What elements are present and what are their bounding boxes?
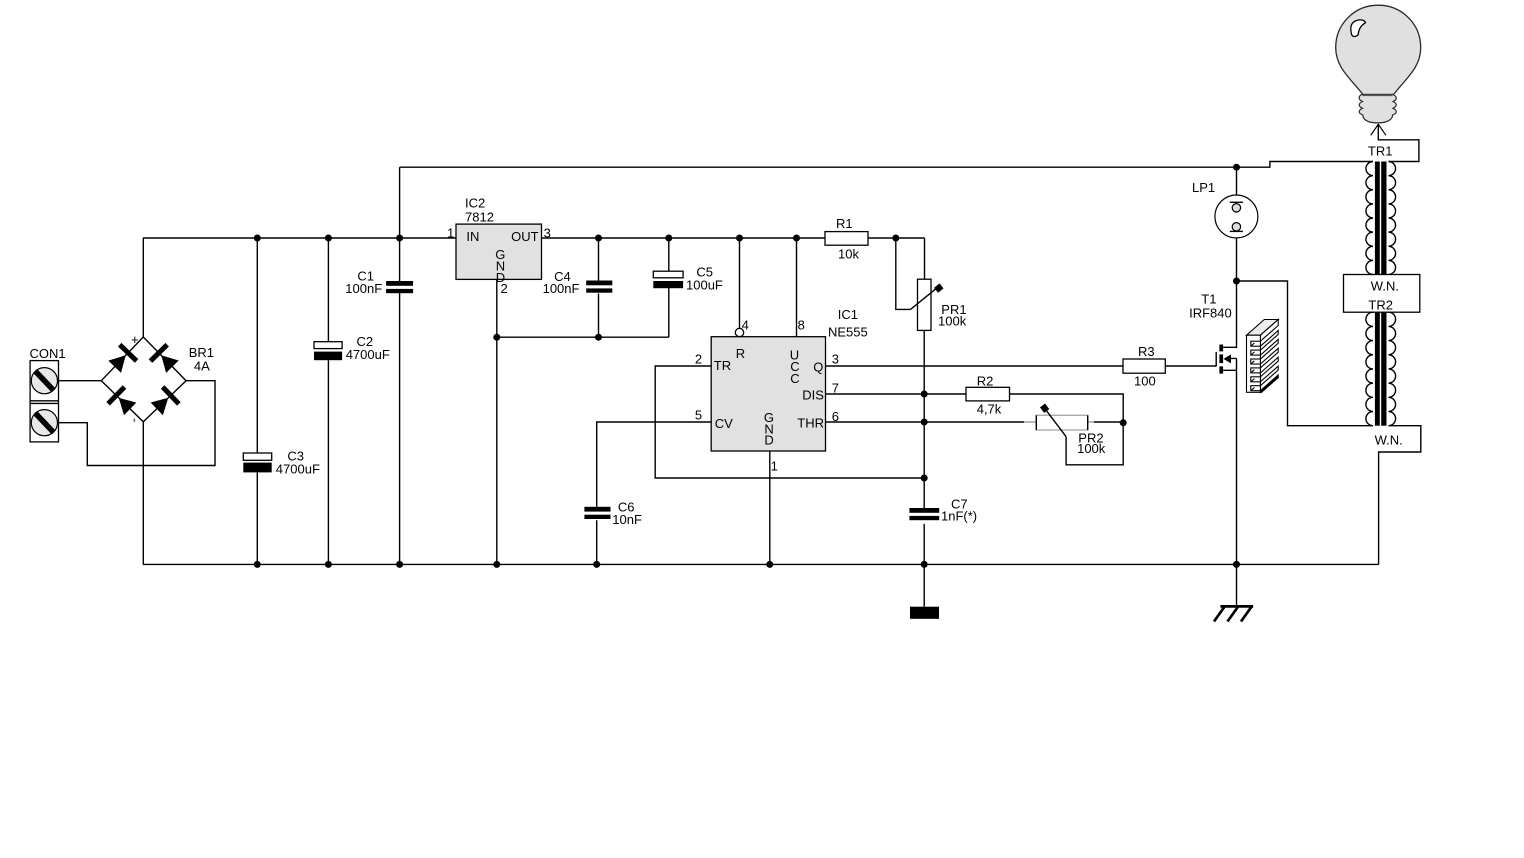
wire +V rail (bridge output, y=238) bbox=[143, 237, 925, 239]
svg-text:NE555: NE555 bbox=[828, 325, 868, 340]
wire drain node to TR2 winding bottom bbox=[1237, 281, 1374, 426]
wire NE555 pin 1 GND to bottom rail bbox=[769, 451, 771, 564]
svg-text:100k: 100k bbox=[1077, 441, 1106, 456]
svg-text:LP1: LP1 bbox=[1192, 180, 1215, 195]
capacitor C2 bbox=[314, 342, 342, 361]
connector CON1 bbox=[30, 361, 58, 442]
wire NE555 pin 5 CV to C6 bbox=[597, 422, 712, 507]
wire TR2 bottom W.N. return to bottom rail bbox=[1379, 426, 1421, 565]
svg-text:2: 2 bbox=[695, 351, 702, 366]
wire CON1 bottom terminal loop to bridge AC right bbox=[59, 381, 216, 466]
BR1 minus mark bbox=[133, 419, 135, 422]
regulator IC2 7812 bbox=[456, 224, 542, 285]
timer IC1 NE555 bbox=[711, 337, 825, 451]
wire C2 branch vertical bbox=[327, 238, 329, 564]
transformer TR1 core bars bbox=[1375, 162, 1387, 275]
wire IC2 gnd / C4 / C5 bottom bus (y=337.2) bbox=[497, 336, 669, 338]
svg-text:6: 6 bbox=[832, 409, 839, 424]
trimmer PR2 bbox=[1024, 403, 1094, 436]
wire CON1 top terminal to bridge AC left bbox=[59, 380, 102, 382]
svg-text:4: 4 bbox=[742, 318, 749, 333]
wire top rail from C1 node to transformer TR1 bbox=[400, 162, 1373, 168]
ground (chassis ground at T1 source) bbox=[1214, 606, 1253, 621]
svg-text:2: 2 bbox=[501, 281, 508, 296]
svg-text:OUT: OUT bbox=[511, 229, 538, 244]
svg-text:TR2: TR2 bbox=[1368, 297, 1393, 312]
wire C4 branch vertical bbox=[598, 238, 600, 337]
svg-text:R1: R1 bbox=[836, 216, 853, 231]
IC1 pin 4 inversion bubble bbox=[735, 328, 743, 336]
svg-text:4A: 4A bbox=[194, 358, 210, 373]
heatsink on T1 bbox=[1247, 320, 1279, 393]
resistor R1 bbox=[825, 232, 868, 246]
svg-text:W.N.: W.N. bbox=[1371, 278, 1399, 293]
svg-text:100nF: 100nF bbox=[543, 281, 580, 296]
diode BR1 top-left bbox=[106, 343, 138, 375]
wire PR2 wiper loop to node bbox=[1066, 423, 1123, 465]
wire C5 branch vertical bbox=[668, 238, 670, 337]
wire IC2 GND pin 2 vertical to bottom rail bbox=[496, 279, 498, 564]
svg-text:7812: 7812 bbox=[465, 209, 494, 224]
svg-text:R2: R2 bbox=[977, 373, 994, 388]
svg-text:4700uF: 4700uF bbox=[346, 347, 390, 362]
W.N. junction box between TR1 and TR2 bbox=[1344, 275, 1420, 313]
svg-text:7: 7 bbox=[832, 381, 839, 396]
svg-text:10k: 10k bbox=[838, 246, 859, 261]
svg-text:4700uF: 4700uF bbox=[276, 462, 320, 477]
wire R3 to MOSFET gate bbox=[1165, 365, 1216, 367]
bridge rectifier BR1 diamond outline bbox=[101, 337, 186, 422]
trimmer PR1 bbox=[911, 279, 944, 330]
svg-text:IRF840: IRF840 bbox=[1189, 305, 1232, 320]
svg-text:Q: Q bbox=[813, 359, 823, 374]
svg-text:R: R bbox=[736, 346, 745, 361]
svg-text:100: 100 bbox=[1134, 373, 1156, 388]
wire NE555 pin 3 Q output to R3 bbox=[826, 365, 1124, 367]
wire PR1 bottom to DIS/THR/C7 node bbox=[923, 330, 925, 508]
wire NE555 pin 8 to +V rail bbox=[796, 238, 798, 337]
wire NE555 pin 4 to +V rail bbox=[739, 238, 741, 328]
transformer TR1 right winding bbox=[1389, 162, 1396, 275]
svg-text:1: 1 bbox=[447, 225, 454, 240]
diode BR1 bottom-left bbox=[106, 385, 138, 417]
svg-text:100nF: 100nF bbox=[345, 281, 382, 296]
wire C1 branch vertical (rail B to bottom rail) bbox=[399, 167, 401, 564]
wire rail to LP1 top terminal bbox=[1236, 167, 1238, 202]
svg-text:CON1: CON1 bbox=[30, 346, 66, 361]
capacitor C6 bbox=[584, 507, 610, 519]
wire bridge - output down to bottom rail bbox=[142, 422, 144, 565]
svg-text:CV: CV bbox=[715, 416, 733, 431]
wire PR1 wiper link bbox=[896, 238, 911, 309]
wire junction dots bbox=[254, 164, 1240, 568]
svg-text:TR: TR bbox=[714, 358, 731, 373]
svg-text:1: 1 bbox=[771, 458, 778, 473]
svg-text:5: 5 bbox=[695, 407, 702, 422]
capacitor C4 bbox=[586, 281, 612, 293]
transformer TR2 left winding bbox=[1366, 312, 1373, 426]
lamp LP1 bbox=[1215, 195, 1258, 238]
svg-text:3: 3 bbox=[544, 225, 551, 240]
capacitor C5 bbox=[653, 271, 683, 288]
resistor R2 bbox=[966, 387, 1010, 401]
wire bridge + output up to rail bbox=[142, 238, 144, 337]
svg-text:100k: 100k bbox=[938, 313, 967, 328]
svg-text:1nF(*): 1nF(*) bbox=[941, 508, 977, 523]
wire PR2 right terminal to node bbox=[1094, 421, 1123, 423]
wire NE555 pin 2 TR loop to node below bbox=[655, 366, 924, 478]
wire R2 right down to PR2 node bbox=[1010, 394, 1124, 423]
wire C3 branch vertical bbox=[256, 238, 258, 564]
svg-text:W.N.: W.N. bbox=[1375, 433, 1403, 448]
transformer TR2 right winding bbox=[1389, 312, 1396, 426]
ground (signal ground bar under C7) bbox=[910, 607, 939, 619]
diode BR1 top-right bbox=[149, 343, 181, 375]
wire MOSFET source and body down to ground bbox=[1223, 358, 1236, 606]
capacitor C1 bbox=[386, 281, 413, 293]
wire MOSFET drain to node bbox=[1223, 281, 1236, 347]
transformer TR1 left winding bbox=[1366, 162, 1373, 275]
svg-text:C: C bbox=[790, 371, 799, 386]
svg-text:THR: THR bbox=[797, 415, 824, 430]
svg-text:R3: R3 bbox=[1138, 344, 1155, 359]
transistor T1 IRF840 MOSFET bbox=[1216, 345, 1231, 374]
svg-text:T1: T1 bbox=[1201, 291, 1216, 306]
diode BR1 bottom-right bbox=[149, 385, 181, 417]
svg-text:IN: IN bbox=[466, 229, 479, 244]
wire NE555 pin 6 THR to PR2 bbox=[826, 421, 1025, 423]
transformer TR2 core bars bbox=[1375, 312, 1387, 426]
svg-text:10nF: 10nF bbox=[612, 512, 642, 527]
svg-text:DIS: DIS bbox=[802, 388, 824, 403]
wire LP1 bottom terminal to drain node bbox=[1236, 231, 1238, 281]
svg-text:4,7k: 4,7k bbox=[977, 402, 1002, 417]
svg-text:+: + bbox=[131, 332, 139, 347]
wire lamp bulb to TR1 right winding bbox=[1378, 124, 1419, 161]
wire C7 bottom to ground symbol bbox=[923, 524, 925, 607]
svg-text:D: D bbox=[764, 433, 773, 448]
svg-text:TR1: TR1 bbox=[1368, 143, 1393, 158]
wire C6 bottom to bottom rail bbox=[596, 520, 598, 564]
resistor R3 bbox=[1123, 359, 1165, 373]
wire NE555 pin 7 DIS to R2 bbox=[826, 393, 967, 395]
wire ground bottom rail (y=564.4) bbox=[143, 563, 1379, 565]
svg-text:IC1: IC1 bbox=[838, 307, 858, 322]
svg-text:100uF: 100uF bbox=[686, 277, 723, 292]
svg-text:3: 3 bbox=[832, 351, 839, 366]
wire R1 to PR1 top bbox=[924, 238, 926, 279]
light bulb (load) bbox=[1336, 5, 1421, 135]
capacitor C7 bbox=[909, 508, 939, 520]
svg-text:8: 8 bbox=[798, 318, 805, 333]
capacitor C3 bbox=[243, 453, 271, 472]
